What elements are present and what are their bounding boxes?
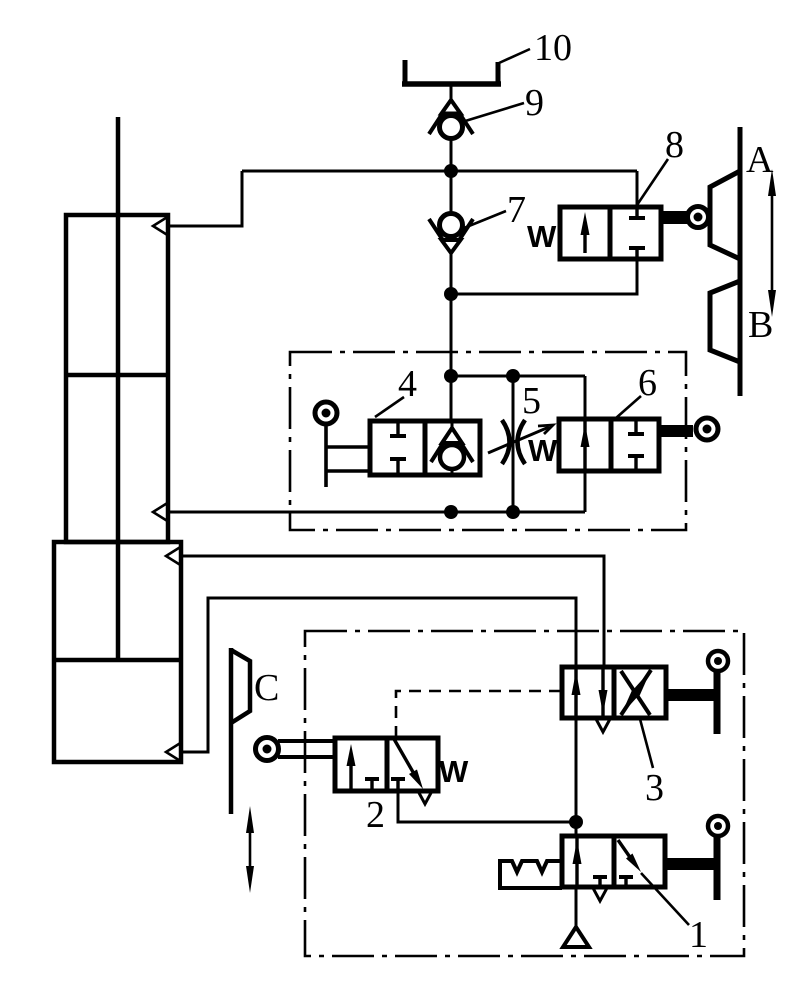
junction dot at y=171 (444, 164, 458, 178)
wire valve8 bottom to main line y=292 (451, 259, 637, 294)
roller of valve 6 (696, 418, 718, 440)
junction dot at y=294 (444, 287, 458, 301)
junction dot top rail right (506, 369, 520, 383)
roller of valve 4 (315, 402, 337, 424)
svg-text:9: 9 (525, 82, 544, 124)
port arrow top of upper cylinder (153, 216, 169, 236)
port arrow top of lower cylinder (166, 546, 182, 566)
svg-text:W: W (528, 433, 558, 468)
junction dot y=822 (569, 815, 583, 829)
leader line 4 (375, 397, 404, 417)
check valve 9 (429, 100, 473, 139)
svg-text:1: 1 (689, 914, 708, 956)
junction dot top rail left (444, 369, 458, 383)
wire valve3 bottom to valve1 top (575, 718, 578, 928)
double headed arrow under C (246, 806, 254, 893)
roller of valve 3 (708, 651, 728, 671)
exhaust vee under valve 2 (418, 791, 432, 804)
wire top rail of middle box (451, 375, 585, 378)
leader line 7 (464, 211, 506, 228)
double headed arrow A-B (768, 169, 776, 317)
roller lever of valve 4 (324, 424, 328, 487)
exhaust triangle below valve 1 (563, 927, 589, 947)
svg-text:3: 3 (645, 767, 664, 809)
wire from rail down to cylinder top port (168, 171, 242, 226)
roller lever of valve 3 (714, 672, 721, 734)
roller stem of valve 1 (665, 858, 717, 870)
piston rod (116, 117, 121, 660)
check valve 7 (429, 214, 473, 254)
exhaust vee under valve 3 (596, 719, 610, 732)
roller lever of valve 1 (714, 836, 721, 900)
cam C wall (229, 648, 234, 814)
port arrow bottom of upper cylinder (153, 502, 169, 522)
roller stem of valve 2 (278, 739, 335, 743)
wire throttle branch (512, 376, 515, 512)
leader line 3 (640, 719, 653, 768)
roller stem of valve 8 (661, 211, 689, 224)
roller stem of valve 3 (666, 689, 717, 701)
middle dash-dot enclosure (290, 352, 686, 530)
leader line 8 (637, 159, 668, 205)
leader line 10 (499, 49, 530, 63)
valve 3 body (562, 667, 666, 718)
throttle valve 5 (488, 420, 553, 464)
svg-text:5: 5 (522, 380, 541, 422)
wire valve2 bottom to junction (398, 779, 576, 822)
valve 6 body (559, 419, 659, 471)
svg-text:10: 10 (534, 27, 572, 69)
cam lobe C (231, 650, 250, 723)
svg-text:8: 8 (665, 124, 684, 166)
roller of valve 1 (708, 816, 728, 836)
valve 4 body (370, 421, 480, 475)
pilot dashed line valve2 to valve3 (396, 691, 562, 738)
wire bottom rail y=512 from cylinder port to right branch (168, 511, 585, 514)
bottom dash-dot enclosure (305, 631, 744, 956)
leader line 9 (462, 103, 524, 122)
svg-text:C: C (254, 667, 279, 709)
wire main vertical line from tank to middle box (450, 84, 453, 421)
svg-text:W: W (527, 219, 557, 254)
tank 10 (403, 60, 408, 86)
junction dot bottom rail left (444, 505, 458, 519)
svg-text:A: A (746, 139, 774, 181)
wire valve6 branch (584, 376, 587, 512)
cam lobe A (710, 171, 740, 259)
roller stem of valve 6 (659, 425, 693, 437)
svg-text:6: 6 (638, 362, 657, 404)
svg-text:B: B (748, 304, 773, 346)
leader line 1 (641, 873, 689, 925)
svg-text:7: 7 (507, 189, 526, 231)
leader line 6 (616, 396, 641, 418)
wire lower cylinder bottom port loop (180, 598, 576, 822)
valve 2 body (335, 738, 438, 791)
exhaust vee under valve 1 (593, 888, 607, 901)
valve U8 body (560, 207, 661, 259)
wire lower cylinder top port to valve 3 (180, 556, 604, 667)
svg-text:2: 2 (366, 794, 385, 836)
cam lobe B (710, 281, 740, 362)
wire valve8 top drop (636, 171, 639, 207)
upper cylinder (66, 215, 168, 542)
junction dot bottom rail right (506, 505, 520, 519)
valve 1 body (562, 836, 665, 887)
lower cylinder (54, 542, 181, 762)
roller of valve 2 (256, 738, 279, 761)
svg-text:W: W (439, 754, 469, 789)
svg-text:4: 4 (398, 363, 417, 405)
roller of valve 8 (688, 207, 709, 228)
wire horizontal rail y=171 (242, 170, 637, 173)
detent spring of valve 1 (500, 861, 562, 888)
cam follower wall (738, 127, 743, 396)
port arrow bottom of lower cylinder (166, 742, 182, 762)
